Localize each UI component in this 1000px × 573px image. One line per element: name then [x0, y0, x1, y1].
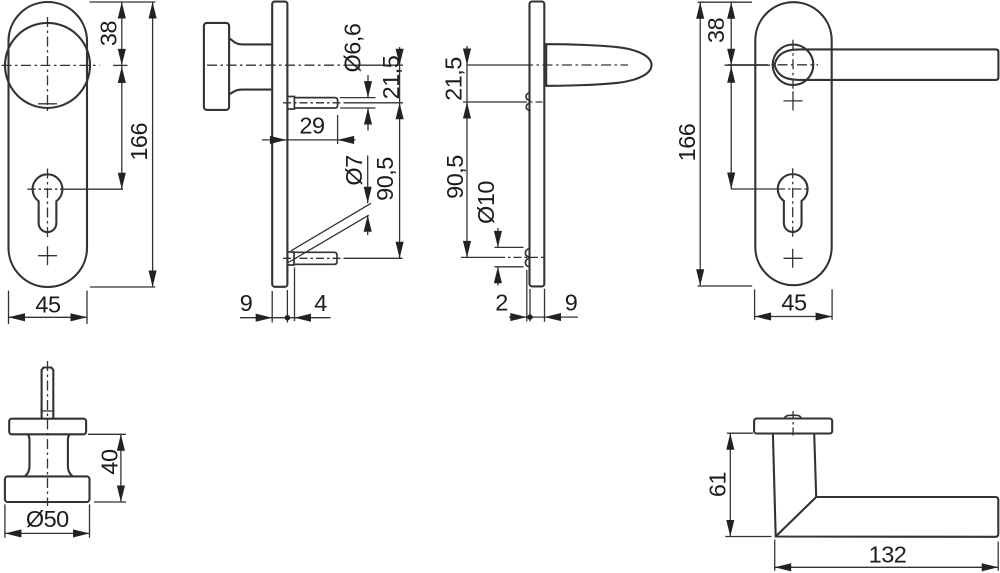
lower screw hole countersink arcs	[525, 249, 529, 267]
svg-text:90,5: 90,5	[442, 155, 468, 199]
dimension line for 2 and 9	[509, 316, 578, 318]
dimension diameter 7 line	[367, 156, 369, 204]
dimension 38 line	[121, 2, 123, 65]
rose vertical centerline	[792, 411, 794, 439]
knob neck top edge	[229, 39, 272, 45]
profile cylinder keyhole	[33, 174, 63, 232]
knob (front circle)	[5, 23, 90, 108]
lever plate (stadium outline)	[755, 2, 831, 285]
extension lines from upper screw diameter	[340, 97, 376, 99]
extension line at upper screw tip	[337, 115, 339, 144]
knob neck left edge	[25, 434, 30, 476]
knob face disc	[5, 476, 90, 502]
vertical centerline through rose	[792, 40, 794, 93]
dimension 45 extension lines	[8, 291, 10, 325]
dimension 45 extension lines	[754, 289, 756, 320]
knob face (side view)	[204, 23, 229, 110]
dimension 132 extension lines	[774, 540, 776, 571]
bottom extension lines (9 and 4)	[271, 291, 273, 323]
svg-text:21,5: 21,5	[441, 57, 467, 101]
upper screw body	[294, 98, 337, 108]
extension line from keyhole center to dimension line	[731, 188, 777, 190]
dimension knob center to keyhole center line	[121, 65, 123, 189]
upper screw hole countersink arcs	[526, 93, 530, 110]
keyhole vertical centerline	[47, 169, 49, 240]
dimension 40 line	[120, 434, 122, 502]
svg-text:166: 166	[674, 123, 700, 161]
svg-text:38: 38	[96, 21, 122, 47]
spindle hub bumps on rose	[784, 415, 801, 418]
knob plate (stadium outline)	[9, 2, 88, 287]
svg-text:132: 132	[869, 542, 907, 568]
spindle centerline	[47, 361, 49, 506]
bottom extension lines (2 and 9)	[526, 270, 528, 322]
svg-text:Ø7: Ø7	[341, 155, 367, 185]
svg-text:90,5: 90,5	[372, 157, 398, 201]
extension of knob centerline to dimension line	[345, 64, 403, 66]
plate (side view)	[530, 2, 545, 287]
dimension line column for 21,5 and 90,5	[399, 47, 401, 258]
svg-text:166: 166	[126, 123, 152, 161]
vertical centerline through knob	[47, 17, 49, 111]
extension tick at rose center	[725, 64, 771, 66]
svg-text:40: 40	[97, 449, 123, 475]
lower screw body	[294, 252, 337, 264]
dimension diameter 6,6 line	[367, 75, 369, 98]
bottom extension line at plate bottom	[90, 286, 155, 288]
knob neck bottom edge	[229, 90, 272, 95]
spindle	[42, 368, 54, 420]
plate (side view)	[272, 2, 287, 287]
diagonal extension lines for diameter 7	[291, 203, 371, 251]
lever handle bar	[775, 49, 999, 80]
dimension diameter 50 line	[5, 532, 90, 534]
svg-text:2: 2	[495, 290, 508, 316]
profile cylinder keyhole	[778, 174, 808, 232]
svg-text:38: 38	[703, 17, 729, 43]
dimension 61 line	[729, 433, 731, 536]
knob rose flange	[9, 419, 86, 435]
extension line from keyhole center to dimension line	[60, 188, 123, 190]
dimension diameter 10 line	[497, 228, 499, 247]
upper screw position cross	[38, 103, 57, 105]
dimension 166 line	[699, 2, 701, 286]
svg-text:21,5: 21,5	[378, 55, 404, 99]
upper screw position cross	[784, 100, 803, 102]
svg-text:29: 29	[299, 113, 324, 139]
extension lines for diameter 10	[495, 246, 524, 248]
bottom extension line at plate bottom	[698, 285, 753, 287]
extension tick at knob center	[113, 64, 128, 66]
dimension 166 line	[152, 2, 154, 287]
keyhole vertical centerline	[792, 168, 794, 239]
svg-text:61: 61	[705, 472, 731, 497]
knob horizontal centerline	[207, 64, 345, 66]
keyhole horizontal centerline	[28, 188, 61, 190]
dimension rose center to keyhole center line	[730, 65, 732, 189]
svg-text:9: 9	[565, 290, 578, 316]
dimension 38 line	[730, 2, 732, 65]
dimension 45 line	[755, 316, 833, 318]
lever horizontal centerline	[467, 64, 523, 66]
horizontal centerline through rose	[728, 64, 759, 66]
dimension 61 extension lines	[727, 432, 753, 434]
dimension 40 extension lines	[88, 433, 126, 435]
knob neck right edge	[68, 434, 73, 476]
miter joint line	[776, 497, 817, 537]
horizontal centerline through knob	[2, 64, 100, 66]
lever rose circle	[773, 45, 814, 86]
top extension line at plate top	[698, 1, 752, 3]
lever grip (side view)	[546, 44, 651, 86]
lower screw position cross	[38, 255, 57, 257]
lower screw head	[287, 252, 294, 265]
svg-text:Ø10: Ø10	[473, 181, 499, 224]
dimension 29 line	[262, 139, 356, 141]
lower screw centerline	[461, 256, 497, 258]
lever rose (side slab)	[754, 419, 832, 434]
lever L-shaped outline	[773, 434, 998, 537]
svg-text:45: 45	[35, 292, 61, 318]
svg-text:4: 4	[314, 290, 327, 316]
dimension line for 9 and 4	[240, 317, 331, 319]
top extension line at plate top	[90, 1, 156, 3]
upper screw head	[287, 97, 294, 110]
keyhole horizontal centerline	[777, 188, 810, 190]
dimension line column for 21,5 and 90,5	[466, 46, 468, 257]
dimension 132 line	[775, 566, 999, 568]
upper screw centerline	[463, 101, 519, 103]
svg-text:Ø6,6: Ø6,6	[340, 23, 366, 72]
spindle cross tick	[41, 410, 55, 412]
svg-text:Ø50: Ø50	[26, 506, 69, 532]
lower screw centerline	[283, 257, 345, 259]
dimension diameter 50 extension lines	[4, 504, 6, 537]
dimension 45 line	[9, 316, 88, 318]
lower screw position cross	[784, 257, 803, 259]
svg-text:9: 9	[240, 290, 253, 316]
svg-text:45: 45	[781, 290, 807, 316]
upper screw centerline	[283, 102, 345, 104]
